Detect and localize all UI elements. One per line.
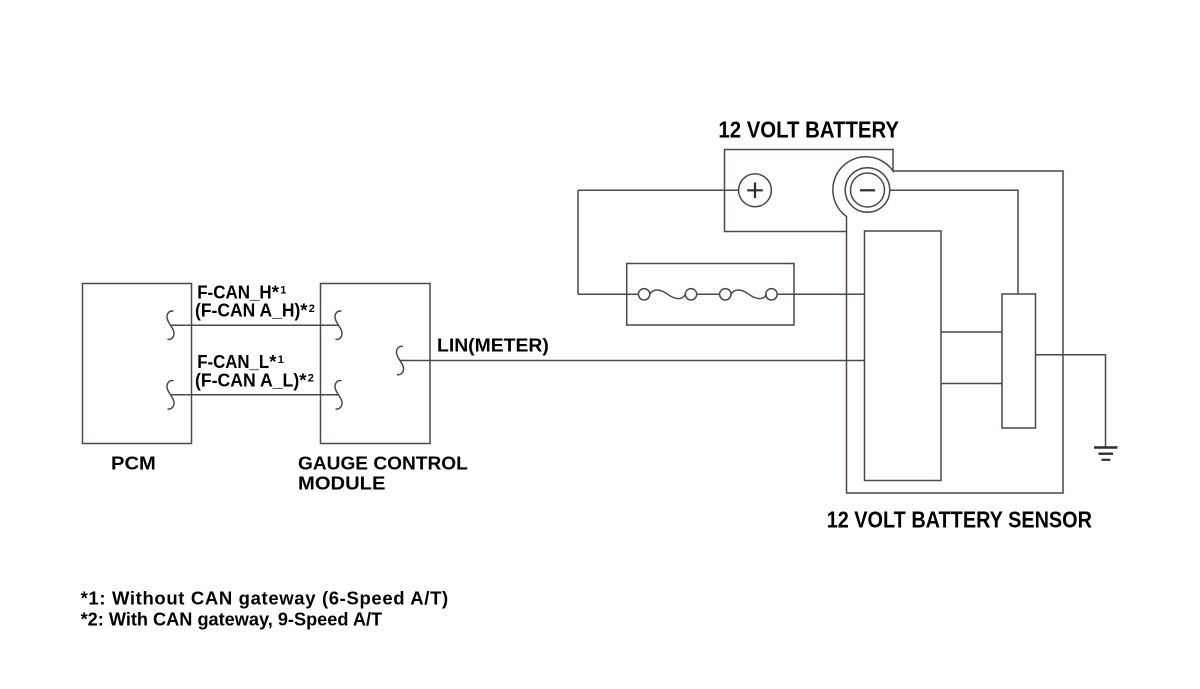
- connector squiggle PCM F-CAN_L: [167, 381, 174, 409]
- GAUGE CONTROL MODULE box: [321, 284, 431, 444]
- connector squiggle GCM LIN: [396, 346, 403, 374]
- svg-text:PCM: PCM: [111, 453, 156, 474]
- svg-text:12 VOLT BATTERY: 12 VOLT BATTERY: [718, 117, 899, 143]
- link middle segment: [697, 293, 720, 295]
- PCM box: [83, 284, 192, 444]
- svg-text:*2: With CAN gateway, 9-Speed: *2: With CAN gateway, 9-Speed A/T: [81, 609, 383, 630]
- svg-text:(F-CAN A_H)*2: (F-CAN A_H)*2: [195, 300, 315, 321]
- fusible link 2: circle, wave, circle: [720, 289, 731, 300]
- wire from plus terminal to left rail: [578, 189, 739, 191]
- svg-text:(F-CAN A_L)*2: (F-CAN A_L)*2: [195, 370, 314, 391]
- left rail down to fuse wire: [577, 190, 579, 294]
- battery sensor inner block: [865, 231, 942, 481]
- 12 volt battery box outline with minus-terminal boss arc: [725, 150, 894, 232]
- wire from minus terminal down to sensor small block: [890, 190, 1018, 294]
- connector squiggle GCM F-CAN_H: [335, 311, 342, 339]
- ground wire from small block: [1036, 355, 1106, 447]
- fuse wire right segment to sensor: [777, 293, 864, 295]
- connect line top (inner block to small block): [941, 331, 1002, 333]
- svg-text:LIN(METER): LIN(METER): [437, 334, 549, 355]
- fusible link 1: circle, wave, circle: [638, 289, 649, 300]
- fuse box: [627, 264, 794, 326]
- battery minus terminal: [845, 168, 890, 213]
- ground symbol: [1094, 446, 1118, 449]
- wire F-CAN_H (PCM to GCM): [171, 324, 339, 326]
- connector squiggle GCM F-CAN_L: [335, 381, 342, 409]
- sensor small block: [1002, 294, 1036, 428]
- svg-text:MODULE: MODULE: [298, 472, 386, 493]
- svg-text:GAUGE CONTROL: GAUGE CONTROL: [298, 453, 468, 474]
- svg-text:12 VOLT BATTERY SENSOR: 12 VOLT BATTERY SENSOR: [827, 507, 1092, 533]
- svg-text:*1: Without CAN gateway (6-Spe: *1: Without CAN gateway (6-Speed A/T): [81, 588, 449, 609]
- fuse wire left segment: [578, 293, 638, 295]
- battery plus terminal: [739, 174, 772, 207]
- battery sensor outer box (top rail, right edge, bottom, left edge): [847, 171, 1064, 493]
- wire F-CAN_L (PCM to GCM): [171, 394, 339, 396]
- wire LIN(METER) (GCM to battery sensor): [400, 360, 865, 362]
- connect line bottom (inner block to small block): [941, 383, 1002, 385]
- connector squiggle PCM F-CAN_H: [167, 311, 174, 339]
